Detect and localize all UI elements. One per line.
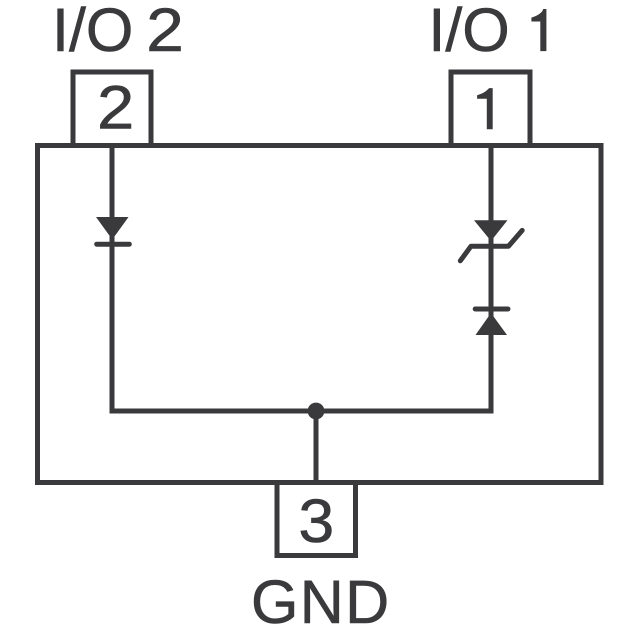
svg-text:I/O: I/O [52, 0, 133, 64]
pin 1 box [451, 72, 530, 146]
zener TVS D1 (right top, I/O 1 branch): triangle [474, 220, 508, 241]
svg-text:GND: GND [251, 568, 390, 636]
diode D3 (right bottom, facing up): cathode bar [475, 307, 508, 312]
svg-text:2: 2 [146, 0, 184, 64]
diode D2 (left, I/O 2 branch): triangle [96, 217, 129, 240]
package outline [38, 146, 602, 483]
zener TVS D1 cathode bar with bent ends [460, 230, 522, 260]
diode D3 triangle [476, 313, 508, 335]
pin 3 box [277, 483, 356, 556]
pin 1 number [477, 88, 493, 129]
junction node dot [308, 403, 325, 420]
diode D2 cathode bar [97, 242, 130, 247]
svg-text:I/O: I/O [428, 0, 509, 64]
pin 2 box [73, 72, 151, 146]
wire: pin 2 down, corner, to junction [112, 146, 316, 412]
wire: pin 1 down, corner, to junction [316, 146, 491, 412]
wire: junction down to pin 3 [314, 411, 319, 483]
svg-text:3: 3 [298, 487, 334, 555]
svg-text:2: 2 [97, 73, 134, 141]
